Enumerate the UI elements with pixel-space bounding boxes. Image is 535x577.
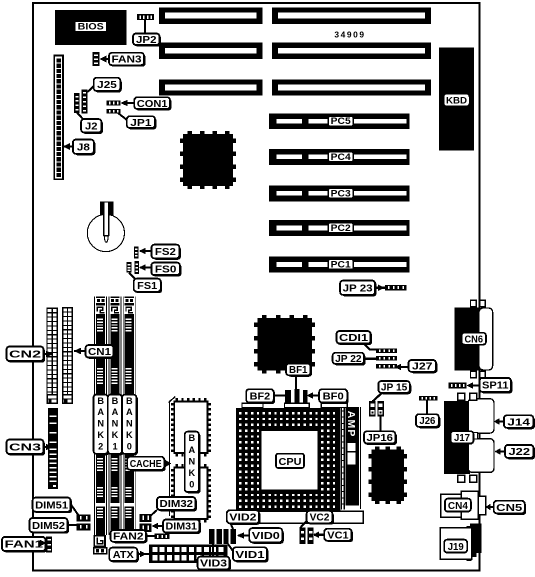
svg-text:CN2: CN2 [9, 350, 41, 361]
svg-text:ATX: ATX [113, 550, 134, 561]
svg-text:FS0: FS0 [155, 265, 177, 276]
svg-text:PC3: PC3 [331, 188, 351, 198]
svg-text:PC4: PC4 [331, 152, 351, 162]
svg-text:N: N [126, 419, 133, 429]
svg-text:0: 0 [189, 480, 194, 490]
svg-text:BIOS: BIOS [78, 22, 104, 32]
svg-text:KBD: KBD [446, 95, 468, 105]
svg-text:CPU: CPU [279, 457, 302, 468]
svg-text:J26: J26 [419, 416, 435, 427]
svg-text:N: N [188, 456, 195, 466]
svg-text:CDI1: CDI1 [339, 333, 368, 344]
svg-text:K: K [188, 468, 195, 478]
svg-text:CN1: CN1 [88, 347, 111, 358]
svg-text:FS1: FS1 [137, 281, 157, 292]
svg-text:CN6: CN6 [465, 334, 484, 345]
svg-text:BF0: BF0 [323, 392, 344, 403]
svg-text:JP 22: JP 22 [335, 354, 362, 365]
svg-text:0: 0 [127, 441, 132, 451]
svg-text:2: 2 [98, 441, 103, 451]
svg-text:K: K [112, 430, 119, 440]
svg-text:JP 15: JP 15 [381, 383, 408, 394]
svg-text:PC2: PC2 [331, 223, 351, 233]
svg-text:A: A [188, 445, 195, 455]
svg-text:CN3: CN3 [9, 443, 41, 454]
svg-text:B: B [126, 396, 133, 406]
svg-text:JP16: JP16 [367, 433, 394, 444]
svg-text:VID3: VID3 [200, 559, 227, 570]
svg-text:34909: 34909 [334, 30, 365, 40]
svg-text:J17: J17 [454, 433, 470, 444]
svg-text:FAN2: FAN2 [113, 532, 144, 543]
svg-text:J14: J14 [507, 417, 530, 428]
svg-text:VID2: VID2 [229, 513, 256, 524]
svg-text:A: A [97, 407, 104, 417]
svg-text:JP1: JP1 [130, 118, 151, 129]
svg-text:A: A [112, 407, 119, 417]
svg-text:DIM32: DIM32 [160, 499, 194, 510]
svg-text:DIM52: DIM52 [32, 521, 65, 532]
svg-text:VC2: VC2 [310, 513, 330, 524]
svg-text:J2: J2 [85, 121, 98, 132]
svg-text:DIM51: DIM51 [35, 500, 68, 511]
svg-text:J22: J22 [509, 447, 531, 458]
svg-text:CN4: CN4 [448, 501, 468, 512]
svg-text:CON1: CON1 [137, 99, 168, 110]
svg-text:SP11: SP11 [482, 381, 509, 392]
svg-text:PC1: PC1 [331, 259, 351, 269]
svg-text:JP2: JP2 [136, 35, 157, 46]
svg-text:N: N [97, 419, 104, 429]
svg-text:FAN1: FAN1 [5, 540, 44, 551]
svg-text:FAN3: FAN3 [112, 55, 142, 66]
svg-text:AMP: AMP [345, 411, 357, 438]
svg-text:JP 23: JP 23 [343, 283, 373, 294]
svg-text:DIM31: DIM31 [166, 522, 198, 533]
svg-text:N: N [112, 419, 119, 429]
svg-text:CACHE: CACHE [130, 459, 162, 470]
svg-text:BF2: BF2 [250, 392, 271, 403]
svg-text:FS2: FS2 [155, 247, 176, 258]
svg-text:VID0: VID0 [252, 531, 280, 542]
svg-text:J8: J8 [77, 142, 90, 153]
svg-text:VID1: VID1 [235, 550, 264, 561]
svg-text:K: K [126, 430, 133, 440]
svg-text:K: K [97, 430, 104, 440]
svg-text:B: B [97, 396, 104, 406]
svg-text:1: 1 [112, 441, 117, 451]
svg-text:J19: J19 [448, 542, 464, 553]
svg-text:VC1: VC1 [327, 530, 349, 541]
svg-text:CN5: CN5 [496, 503, 522, 514]
svg-text:BF1: BF1 [289, 365, 308, 376]
svg-text:J25: J25 [97, 80, 117, 91]
svg-text:B: B [112, 396, 119, 406]
svg-text:PC5: PC5 [331, 116, 351, 126]
svg-text:B: B [188, 433, 195, 443]
svg-text:A: A [126, 407, 133, 417]
svg-text:J27: J27 [412, 362, 433, 373]
